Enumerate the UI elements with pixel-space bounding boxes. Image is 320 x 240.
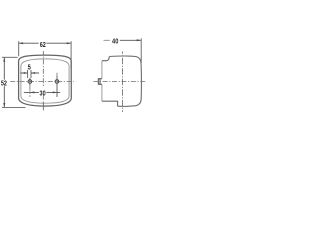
dim 52 top extension line <box>2 56 18 58</box>
dim 40 line <box>104 39 110 41</box>
side view vertical dash-dot line <box>122 52 124 113</box>
side view lens outline <box>109 56 141 106</box>
front view outer contour <box>19 55 72 106</box>
dim 52 bottom extension line <box>2 106 26 108</box>
hole left centerline <box>29 86 31 97</box>
dim 52 line <box>3 57 5 107</box>
dim 52 bottom arrow <box>3 103 5 107</box>
dim 30 line <box>24 91 60 93</box>
svg-text:62: 62 <box>40 40 46 49</box>
hole left <box>28 80 32 84</box>
dim 62 right extension line <box>70 41 72 69</box>
svg-text:40: 40 <box>112 37 118 46</box>
svg-text:52: 52 <box>1 78 7 87</box>
svg-text:5: 5 <box>28 62 31 71</box>
side view stud <box>98 79 102 85</box>
dim 5 left arrow <box>24 72 28 74</box>
dim 62 line <box>19 42 71 44</box>
dim 30 right arrow <box>53 91 57 93</box>
hole right centerline <box>56 73 58 76</box>
side view horizontal centerline <box>94 81 147 83</box>
dim 62 left extension line <box>18 41 20 56</box>
dim 40 right arrow <box>137 39 141 41</box>
side view housing outline <box>102 57 109 61</box>
dim 40 right extension line <box>140 38 142 63</box>
dim 52 top arrow <box>3 57 5 61</box>
side view housing bottom <box>102 101 118 106</box>
side view housing left edge <box>101 61 103 101</box>
front view horizontal centerline <box>10 81 75 83</box>
dim 30 left arrow <box>30 91 34 93</box>
dim 5 right arrow <box>31 72 35 74</box>
dim 5 line with outside arrows <box>20 72 39 74</box>
dim 62 right arrow <box>67 42 71 44</box>
dim 5 extension lines <box>28 70 31 78</box>
svg-text:30: 30 <box>40 88 46 97</box>
front view vertical centerline <box>42 51 44 87</box>
hole right <box>55 80 59 84</box>
dim 62 left arrow <box>19 42 23 44</box>
front view inner contour <box>21 59 69 103</box>
